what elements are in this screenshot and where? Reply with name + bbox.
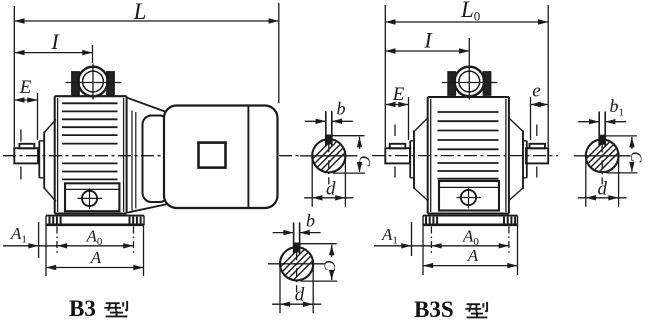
bearing housing flange	[43, 132, 45, 189]
right shaft of B3S	[526, 148, 548, 163]
eyebolt inner ring B3S	[459, 71, 480, 92]
motor body	[164, 106, 278, 209]
bottom box B3S	[439, 181, 499, 211]
svg-text:d: d	[326, 179, 336, 200]
dim L0 line with arrows	[385, 21, 548, 23]
dim E line with arrows	[14, 99, 37, 101]
dim L extension line right	[278, 3, 280, 103]
centerlines of section	[268, 263, 325, 265]
dim E extension line right	[37, 93, 39, 140]
dim d line with arrows	[272, 303, 321, 305]
motor end cap seam	[247, 106, 249, 208]
dim A line	[46, 267, 144, 269]
drain plug circle	[82, 191, 97, 206]
bottom box (oil sump)	[65, 183, 119, 211]
right bearing housing of B3S	[526, 141, 528, 178]
svg-text:C: C	[356, 155, 373, 166]
base plate B3S	[423, 215, 518, 217]
dim b line with arrows	[273, 232, 294, 234]
eyebolt outer ring B3S	[455, 67, 485, 97]
svg-text:B3S: B3S	[414, 297, 454, 322]
dim A0 dash-dot extensions	[56, 227, 58, 255]
label C rotated	[626, 149, 638, 162]
dim C line with arrows	[359, 137, 361, 172]
svg-text:A1: A1	[381, 225, 398, 247]
motor terminal box	[199, 143, 226, 168]
eyebolt boss left	[72, 72, 79, 95]
svg-text:E: E	[392, 84, 405, 105]
centerlines of section	[300, 155, 357, 157]
dim A0 dash-dot extensions B3S	[430, 227, 432, 255]
svg-text:b: b	[337, 99, 346, 119]
key on right shaft	[530, 144, 546, 149]
eyebolt outer ring	[78, 67, 108, 97]
eyebolt boss right	[107, 72, 114, 95]
dim b line with arrows	[305, 120, 326, 122]
key on left shaft	[390, 144, 406, 149]
adapter flange lines	[131, 111, 133, 211]
section circle at 602.2,155.8	[586, 139, 619, 172]
bearing cover outer face	[38, 141, 40, 178]
C reference lines	[605, 135, 637, 137]
C reference lines	[300, 243, 337, 245]
eyebolt boss right B3S	[483, 72, 490, 95]
dim l extension: machine vertical centerline top	[92, 45, 94, 63]
svg-text:C: C	[321, 260, 338, 271]
machine vertical centerline top	[468, 38, 470, 64]
svg-text:A: A	[467, 246, 479, 265]
svg-text:C: C	[627, 151, 644, 162]
svg-text:b1: b1	[610, 96, 625, 119]
label C rotated	[326, 257, 338, 270]
dim L line with arrows	[14, 20, 279, 22]
eyebolt boss left B3S	[448, 72, 455, 95]
dim d line with arrows	[304, 197, 353, 199]
dim L0 extension line right (shaft end)	[547, 5, 549, 147]
left shaft of B3S	[385, 148, 410, 163]
dim A1/A0 line	[3, 245, 134, 247]
dim C line with arrows	[631, 137, 633, 172]
dim d extension lines	[585, 158, 587, 207]
centerlines of section	[574, 155, 631, 157]
foot bolt hatch right B3S	[503, 217, 505, 225]
dim L extension line left (shaft end face)	[13, 6, 15, 147]
motor front endbell	[143, 116, 169, 203]
svg-text:d: d	[295, 285, 305, 306]
drain plug circle B3S	[461, 190, 476, 205]
keyway slot	[325, 111, 327, 146]
svg-text:d: d	[597, 179, 607, 200]
housing cone slants	[44, 120, 56, 133]
foot bolt hatch left B3S	[425, 217, 427, 225]
dim d extension lines	[279, 266, 281, 313]
adapter bell bottom slant	[127, 204, 167, 213]
dim d line with arrows	[578, 197, 627, 199]
cooling fins B3S	[438, 111, 499, 113]
dim A extension lines	[45, 225, 47, 276]
section circle at 328.8,155.8	[312, 139, 345, 172]
section circle at 296.6,263.8	[280, 247, 313, 280]
left bearing housing of B3S	[409, 141, 411, 178]
wire: section plane mark on shaft	[20, 130, 22, 142]
svg-text:I: I	[50, 29, 60, 54]
wire: horizontal main centerline (right machine)	[372, 155, 558, 157]
svg-text:A0: A0	[462, 227, 479, 249]
dim d extension lines	[311, 158, 313, 207]
keyway slot	[598, 112, 600, 147]
key on shaft	[19, 144, 34, 149]
reducer body outline	[55, 95, 127, 97]
dim L0 extension line left (shaft end)	[384, 5, 386, 147]
svg-text:L: L	[133, 0, 147, 24]
dim l line with arrows	[14, 52, 92, 54]
svg-text:E: E	[19, 77, 32, 98]
wire: section plane mark right shaft	[536, 125, 538, 137]
dim C line with arrows	[331, 245, 333, 280]
eyebolt inner ring	[83, 71, 104, 92]
dim E extension line	[408, 97, 410, 140]
eyebolt crosshair	[66, 82, 122, 84]
wire: section plane mark left shaft	[394, 125, 396, 137]
wire: horizontal main centerline (left machine + mid section)	[3, 155, 299, 157]
dim e extension line	[530, 97, 532, 140]
keyway slot	[293, 222, 295, 254]
cooling fins	[62, 102, 118, 104]
svg-text:B3: B3	[69, 296, 96, 321]
eyebolt crosshair B3S	[442, 82, 498, 84]
label C rotated	[354, 149, 366, 162]
adapter bell top slant	[127, 98, 165, 112]
foot bolt hatch left	[49, 217, 51, 225]
foot bolt hatch right	[129, 217, 131, 225]
dim A1 extension line	[38, 222, 40, 258]
base plate	[46, 215, 144, 217]
dim A1/A0 line B3S	[374, 245, 509, 247]
dim b line with arrows	[578, 121, 599, 123]
svg-text:I: I	[423, 28, 433, 53]
svg-text:A0: A0	[86, 227, 103, 249]
svg-text:A: A	[90, 248, 102, 267]
dim A1 extension line B3S	[411, 222, 413, 256]
dim A line B3S	[423, 265, 518, 267]
C reference lines	[332, 135, 365, 137]
svg-text:A1: A1	[10, 224, 27, 246]
svg-text:e: e	[532, 81, 540, 102]
B3S reducer body outline	[428, 96, 509, 98]
svg-text:b: b	[306, 211, 315, 231]
shaft (left output shaft)	[14, 148, 38, 163]
dim A extension lines B3S	[422, 225, 424, 275]
dim I line with arrows	[385, 50, 469, 52]
svg-text:L0: L0	[460, 0, 480, 24]
dim e line with arrows	[531, 104, 549, 106]
dim E line with arrows	[385, 104, 408, 106]
